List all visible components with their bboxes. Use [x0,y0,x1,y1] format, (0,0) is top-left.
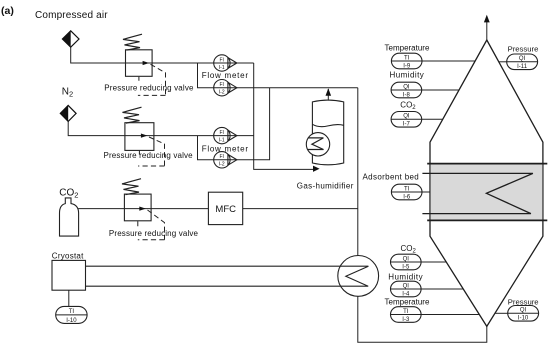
svg-text:Pressure reducing valve: Pressure reducing valve [109,229,199,238]
svg-text:CO2: CO2 [59,187,78,199]
pressure reducing valve PRV3 body [124,194,151,221]
svg-text:I-2: I-2 [219,90,225,96]
svg-text:I-10: I-10 [518,316,529,322]
svg-text:N2: N2 [62,87,73,99]
svg-text:Flow meter: Flow meter [202,71,249,80]
instrument bubble TI I-6 [391,184,422,200]
svg-text:Pressure: Pressure [508,297,539,306]
arrow inside PRV2 [141,134,148,138]
svg-text:I-4: I-4 [402,291,410,297]
svg-text:FI: FI [219,154,223,160]
instrument bubble QI I-5 [391,254,422,270]
arrow inside PRV3 [139,207,146,211]
svg-text:I-7: I-7 [403,122,411,128]
arrow inside PRV1 [143,61,150,65]
wire: compressed air upper branch to flow meter FI I-1 [198,62,254,64]
svg-text:(a): (a) [1,5,14,17]
wire: main header down to heat exchanger [357,88,359,256]
instrument bubble TI I-10 (cryostat) [56,306,87,323]
arrow into humidifier bottom [313,166,320,172]
wire: instrument QI I-5 to column [391,261,447,263]
wire: compressed air source to branch point [71,47,198,63]
svg-text:TI: TI [404,186,410,192]
svg-text:FI: FI [219,57,223,63]
wire: heat exchanger to column bottom [358,296,487,342]
flow meter FI I-1 (N2) [214,127,237,143]
svg-text:QI: QI [403,114,410,120]
svg-text:QI: QI [403,283,410,289]
instrument bubble QI I-8 [391,82,422,98]
heating coil in adsorbent bed [422,173,533,213]
wire: cryostat to instrument TI I-10 [68,290,70,306]
wire: cryostat coolant loop through heat exchanger [86,266,369,286]
MFC mass flow controller box [208,192,242,224]
svg-text:QI: QI [520,308,527,314]
bed retaining flange lower [427,219,547,221]
svg-text:Temperature: Temperature [385,298,430,307]
arrow at humidifier outlet [326,88,332,95]
compressed air source diamond [62,31,79,47]
wire: instrument TI I-3 to column [391,314,480,316]
flow meter FI I-2 (N2) [214,152,237,168]
svg-text:I-11: I-11 [517,64,528,70]
CO2 gas cylinder [60,198,79,236]
wire: CO2 cylinder to PRV3 and MFC [78,208,208,210]
heat exchanger circle [338,256,379,297]
svg-text:MFC: MFC [215,204,236,215]
instrument bubble TI I-3 [391,307,422,323]
svg-text:Temperature: Temperature [385,43,430,52]
wire: instrument TI I-6 to column [391,191,430,193]
pilot dashed line PRV3 [138,210,165,240]
cryostat box [52,260,86,290]
wire: N2 upper branch to junction [198,135,254,137]
svg-text:I-6: I-6 [403,194,411,200]
svg-text:TI: TI [69,309,75,315]
svg-text:I-3: I-3 [402,317,410,323]
pressure reducing valve PRV1 body [126,50,153,77]
wire: instrument TI I-9 to column [391,60,475,62]
svg-text:FI: FI [219,130,223,136]
svg-text:I-8: I-8 [403,92,411,98]
wire: instrument QI I-8 to column [391,89,459,91]
adsorbent bed gray fill [431,164,543,220]
svg-text:QI: QI [403,256,410,262]
flow meter FI I-1 (compressed air) [214,55,237,71]
svg-text:Gas-humidifier: Gas-humidifier [297,182,354,191]
svg-text:TI: TI [404,55,410,61]
bed retaining flange upper [427,163,547,165]
wire: instrument QI I-4 to column [391,288,464,290]
N2 source diamond [60,105,76,121]
svg-text:QI: QI [403,84,410,90]
pressure reducing valve PRV2 body [125,123,154,151]
adsorption column vessel [430,40,543,326]
svg-text:Pressure reducing valve: Pressure reducing valve [104,151,194,160]
wire: MFC outlet to main header [243,208,358,210]
spring of PRV2 [123,107,142,123]
wire: instrument QI I-11 to column [499,61,507,63]
instrument bubble QI I-11 [507,54,538,70]
wire: wet stream down to humidifier inlet [254,63,314,169]
gas humidifier vessel [312,100,343,165]
pilot dashed line PRV2 [138,137,164,166]
svg-text:QI: QI [519,56,526,62]
svg-text:I-9: I-9 [403,63,411,69]
wire: instrument QI I-10 to column [495,312,508,314]
wire: instrument QI I-7 to column [391,118,443,120]
svg-text:Pressure reducing valve: Pressure reducing valve [104,84,194,93]
svg-text:Humidity: Humidity [390,70,425,79]
instrument bubble TI I-9 [391,53,422,69]
svg-text:TI: TI [403,309,409,315]
svg-text:Cryostat: Cryostat [52,251,84,260]
svg-text:Compressed air: Compressed air [35,10,108,21]
wire: column vent line [486,22,488,40]
svg-text:I-2: I-2 [219,162,225,168]
instrument bubble QI I-4 [391,281,422,297]
svg-text:CO2: CO2 [400,101,416,112]
svg-text:I-10: I-10 [66,318,77,324]
arrow at column vent [484,15,490,23]
flow meter FI I-2 (compressed air) [214,80,237,96]
instrument bubble QI I-10 (pressure) [508,306,539,322]
svg-text:Humidity: Humidity [388,273,423,282]
wire: humidifier outlet up to header [327,89,329,101]
svg-text:I-1: I-1 [219,137,225,143]
svg-text:I-1: I-1 [219,65,225,71]
svg-text:FI: FI [219,82,223,88]
heater circle in humidifier [306,133,329,156]
heater coil zigzag [308,138,324,150]
svg-text:Pressure: Pressure [508,44,539,53]
instrument bubble QI I-7 [391,112,422,128]
spring of PRV1 [123,34,142,50]
svg-text:Adsorbent bed: Adsorbent bed [363,172,420,181]
svg-text:Flow meter: Flow meter [202,145,249,154]
wire: N2 lower branch [198,88,270,160]
water level wave in humidifier [312,124,343,126]
svg-text:CO2: CO2 [401,244,417,255]
pilot dashed line PRV1 [138,64,166,95]
wire: compressed air lower branch [198,63,358,88]
spring of PRV3 [122,179,141,195]
wire: N2 source to branch point [68,121,197,135]
svg-text:I-5: I-5 [402,264,410,270]
